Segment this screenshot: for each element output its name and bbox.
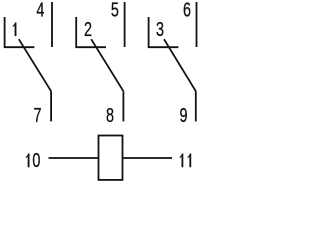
pin label 10 [26, 149, 41, 172]
coil left wire [49, 157, 99, 159]
svg-text:9: 9 [179, 104, 187, 127]
pole 1 common terminal 1 wire (L shape) [4, 17, 35, 47]
pole 3 common terminal 3 wire (L shape) [148, 17, 179, 47]
svg-text:0: 0 [32, 149, 40, 172]
pin label 1 [13, 22, 17, 36]
pole 3 movable contact blade (diagonal) [164, 39, 196, 91]
terminal 5 wire [124, 2, 126, 47]
pole 2 movable contact blade (diagonal) [91, 39, 123, 91]
svg-text:4: 4 [36, 0, 44, 21]
terminal 9 wire [195, 91, 197, 121]
svg-text:2: 2 [84, 18, 92, 41]
pole 2 common terminal 2 wire (L shape) [75, 17, 106, 47]
terminal 8 wire [122, 91, 124, 121]
pole 1 movable contact blade (diagonal) [19, 39, 51, 91]
terminal 6 wire [196, 2, 198, 47]
svg-text:3: 3 [156, 18, 164, 41]
coil right wire [123, 157, 173, 159]
terminal 4 wire [51, 2, 53, 47]
svg-text:7: 7 [33, 104, 41, 127]
svg-text:6: 6 [183, 0, 191, 21]
terminal 7 wire [50, 91, 52, 121]
pin label 11 [180, 154, 192, 168]
coil K1 rectangle [99, 136, 123, 180]
svg-text:8: 8 [106, 104, 114, 127]
svg-text:5: 5 [111, 0, 119, 21]
